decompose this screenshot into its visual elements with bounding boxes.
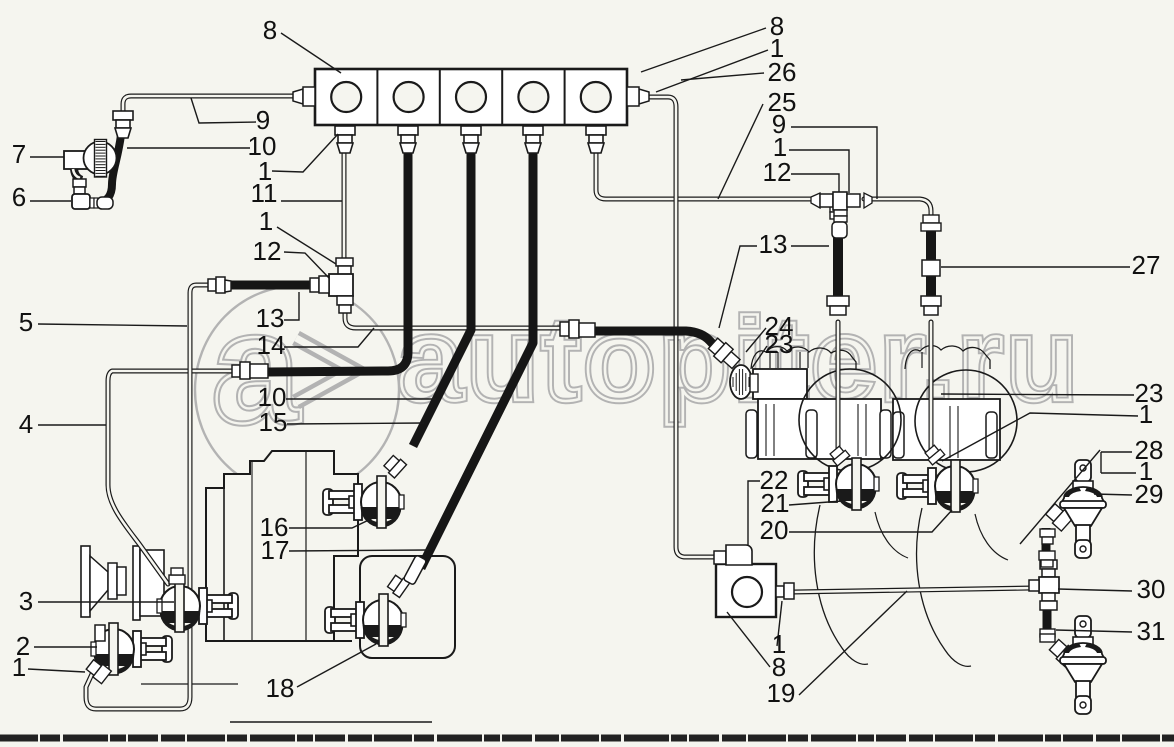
svg-text:1: 1 bbox=[259, 206, 273, 236]
svg-text:1: 1 bbox=[12, 652, 26, 682]
svg-text:27: 27 bbox=[1132, 250, 1161, 280]
svg-text:12: 12 bbox=[253, 236, 282, 266]
svg-text:26: 26 bbox=[768, 57, 797, 87]
svg-text:5: 5 bbox=[19, 307, 33, 337]
svg-text:17: 17 bbox=[261, 535, 290, 565]
svg-text:11: 11 bbox=[251, 178, 278, 208]
svg-text:1: 1 bbox=[1139, 399, 1153, 429]
svg-text:3: 3 bbox=[19, 586, 33, 616]
svg-text:14: 14 bbox=[257, 330, 286, 360]
svg-text:20: 20 bbox=[760, 515, 789, 545]
svg-text:18: 18 bbox=[266, 673, 295, 703]
svg-text:19: 19 bbox=[767, 678, 796, 708]
svg-text:31: 31 bbox=[1137, 616, 1166, 646]
svg-text:21: 21 bbox=[761, 488, 790, 518]
svg-text:30: 30 bbox=[1137, 574, 1166, 604]
svg-text:8: 8 bbox=[263, 15, 277, 45]
svg-text:23: 23 bbox=[765, 329, 794, 359]
svg-text:12: 12 bbox=[763, 157, 792, 187]
svg-text:6: 6 bbox=[12, 182, 26, 212]
svg-text:13: 13 bbox=[256, 303, 285, 333]
svg-text:4: 4 bbox=[19, 409, 33, 439]
svg-text:15: 15 bbox=[259, 407, 288, 437]
svg-text:29: 29 bbox=[1135, 479, 1164, 509]
svg-text:13: 13 bbox=[759, 229, 788, 259]
svg-text:7: 7 bbox=[12, 139, 26, 169]
